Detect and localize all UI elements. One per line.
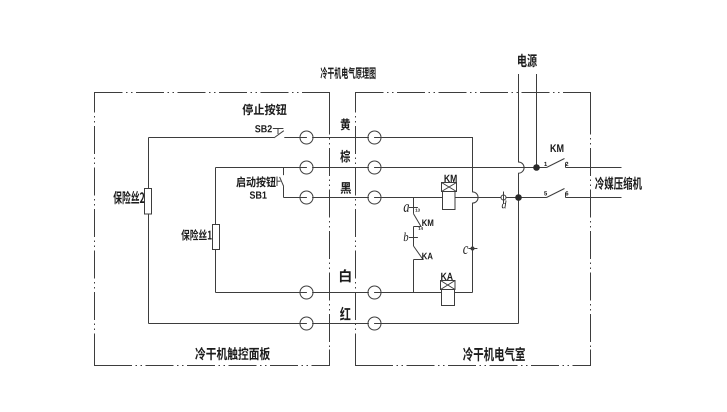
pin 5 — [544, 191, 547, 195]
fuse F1 — [213, 225, 220, 250]
label 冷干机电气室 (electrical room) — [463, 347, 525, 362]
label 启动按钮 (start button) — [236, 176, 275, 187]
pin 14 — [418, 227, 422, 230]
contactor coil KM — [442, 183, 457, 210]
label 电源 (power source) — [518, 54, 537, 68]
label KM (aux contact) — [422, 219, 433, 226]
relay KA contact (NO) — [414, 246, 424, 260]
contactor KM main contact 1-2 — [547, 159, 566, 168]
wire: fuse2 branch vertical — [148, 138, 150, 324]
label SB1 — [250, 191, 267, 198]
wire: black row right of KM coil — [455, 197, 547, 199]
terminal circle — [368, 191, 381, 204]
wire: aux branch from black row — [413, 198, 415, 214]
pin 2 — [565, 162, 568, 166]
wire: compressor feed top — [566, 167, 622, 169]
wire: white row — [216, 292, 442, 294]
label SB2 — [255, 125, 272, 132]
label a — [404, 204, 409, 212]
title 冷干机电气原理图 — [321, 67, 376, 79]
label 冷干机触控面板 (touch panel) — [195, 347, 270, 360]
enclosure: electrical room box border — [356, 93, 591, 366]
wire label 红 (red) — [340, 307, 350, 321]
push-button SB2 stop (NC) — [273, 129, 284, 138]
label 保险丝2 (fuse 2) — [113, 191, 144, 205]
wire: white row right of KA coil — [455, 292, 473, 294]
node b tick — [409, 237, 418, 239]
wire: black row — [284, 197, 443, 199]
wire: fuse1 branch vertical — [215, 168, 217, 293]
enclosure: control panel box border — [95, 93, 330, 366]
fuse F2 — [145, 189, 152, 215]
label 冷媒压缩机 (refrigerant compressor) — [595, 177, 642, 190]
power line L1 — [519, 74, 525, 324]
pin 13 — [415, 209, 419, 212]
wire: branch to white row — [413, 260, 415, 293]
label d — [502, 201, 507, 209]
label 保险丝1 (fuse 1) — [181, 229, 211, 240]
pin 1 — [544, 162, 547, 166]
power line L2 — [536, 74, 538, 168]
label 停止按钮 (stop button) — [242, 104, 286, 116]
wire: red row — [149, 323, 519, 325]
wire: branch a-b — [413, 227, 415, 247]
wire: brown row — [216, 167, 547, 169]
node a tick — [409, 207, 418, 209]
terminal circle — [368, 131, 381, 144]
wire label 黄 (yellow) — [341, 118, 350, 130]
wire label 棕 (brown) — [340, 150, 350, 163]
wire: yellow row to node column and drop (hop over black row) — [284, 138, 478, 293]
label KA (coil) — [441, 273, 453, 280]
wire label 黑 (black) — [341, 182, 351, 194]
wire: compressor feed bottom — [566, 197, 622, 199]
label b — [404, 232, 409, 241]
contactor KM aux contact (NO) — [414, 214, 422, 227]
node c marker — [468, 247, 477, 250]
contactor KM main contact 5-6 — [547, 189, 566, 198]
terminal circle — [368, 317, 381, 330]
label KM (coil) — [444, 175, 456, 182]
terminal circle — [300, 317, 313, 330]
junction dot L1/black row — [515, 194, 522, 201]
junction dot L2/brown row — [533, 164, 540, 171]
node d marker — [501, 192, 506, 204]
terminal circle — [300, 161, 313, 174]
terminal circle — [300, 131, 313, 144]
label c — [463, 246, 468, 254]
terminal circle — [300, 286, 313, 299]
terminal circle — [368, 161, 381, 174]
push-button SB1 start (NO) — [277, 168, 284, 198]
wire label 白 (white) — [340, 269, 351, 282]
label KA (contact) — [422, 253, 433, 260]
wire: yellow row left segment — [149, 137, 275, 139]
terminal circle — [368, 286, 381, 299]
pin 6 — [565, 191, 568, 195]
terminal circle — [300, 191, 313, 204]
label KM (main contacts) — [551, 144, 564, 152]
relay coil KA — [441, 281, 456, 306]
